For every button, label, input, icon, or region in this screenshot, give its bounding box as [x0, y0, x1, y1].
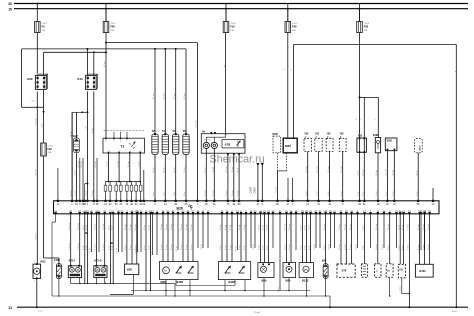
svg-text:0.5 bl: 0.5 bl	[263, 225, 265, 230]
svg-text:0.5 gn: 0.5 gn	[125, 245, 127, 250]
svg-text:0.5 ws: 0.5 ws	[418, 244, 420, 250]
svg-text:0.5 gn: 0.5 gn	[388, 245, 390, 250]
svg-text:0.5 gr: 0.5 gr	[398, 225, 400, 230]
svg-text:B122: B122	[302, 279, 309, 283]
svg-text:M33: M33	[285, 144, 291, 148]
svg-text:B168: B168	[177, 280, 184, 284]
svg-text:b.Pin: b.Pin	[452, 311, 458, 313]
svg-text:0.5 sw: 0.5 sw	[285, 244, 287, 250]
svg-text:0.5 ws: 0.5 ws	[166, 224, 168, 230]
svg-text:0.5 br: 0.5 br	[309, 225, 311, 230]
svg-text:0.5 ws: 0.5 ws	[350, 244, 352, 250]
svg-text:0.5 sw: 0.5 sw	[75, 190, 77, 196]
svg-text:0.5 ws: 0.5 ws	[428, 244, 430, 250]
svg-text:0.5 sw: 0.5 sw	[285, 224, 287, 230]
svg-text:1: 1	[34, 262, 35, 264]
svg-text:0.5 ws: 0.5 ws	[166, 244, 168, 250]
svg-text:0.5 gn: 0.5 gn	[324, 245, 326, 250]
svg-text:0.75 bl: 0.75 bl	[103, 223, 105, 230]
svg-text:0.5 gr: 0.5 gr	[397, 245, 400, 250]
svg-text:0.5 sw: 0.5 sw	[376, 244, 378, 250]
svg-text:15 br: 15 br	[183, 191, 186, 196]
svg-text:12 ab2: 12 ab2	[254, 312, 261, 314]
svg-text:S292: S292	[387, 141, 393, 143]
svg-text:B64: B64	[286, 279, 291, 283]
svg-text:0.5 sw: 0.5 sw	[78, 161, 80, 167]
svg-text:1.5 sw: 1.5 sw	[138, 161, 140, 167]
svg-text:0.5 gn: 0.5 gn	[130, 245, 132, 250]
svg-text:0.5 gn: 0.5 gn	[388, 224, 390, 230]
svg-text:0.5 gr: 0.5 gr	[376, 170, 378, 175]
svg-text:S79: S79	[342, 269, 347, 273]
svg-text:0.5 br: 0.5 br	[305, 225, 307, 230]
svg-text:0.75 br: 0.75 br	[408, 223, 410, 230]
svg-text:0.5 gr: 0.5 gr	[230, 225, 232, 230]
svg-text:0.5 br: 0.5 br	[308, 245, 311, 250]
svg-text:T1: T1	[121, 145, 125, 149]
svg-text:0.5 ws: 0.5 ws	[186, 244, 188, 250]
svg-text:0.5 sw: 0.5 sw	[226, 166, 228, 172]
svg-text:15: 15	[8, 8, 12, 12]
svg-text:K40: K40	[77, 77, 83, 81]
svg-text:0.5 sw: 0.5 sw	[81, 161, 83, 167]
svg-text:0.5 ws: 0.5 ws	[339, 244, 341, 250]
svg-text:0.5 br: 0.5 br	[148, 245, 151, 250]
svg-text:31: 31	[9, 306, 13, 310]
svg-text:0.5 gn: 0.5 gn	[213, 167, 215, 173]
svg-text:0.75 sw: 0.75 sw	[196, 120, 198, 127]
svg-text:0.5 sw: 0.5 sw	[153, 93, 155, 99]
svg-text:0.5 ws: 0.5 ws	[345, 244, 347, 250]
svg-text:15: 15	[120, 140, 122, 142]
svg-text:0.5 sw: 0.5 sw	[174, 93, 176, 99]
svg-text:B36: B36	[322, 259, 327, 262]
svg-text:A7B: A7B	[225, 142, 231, 146]
svg-text:0.5 br: 0.5 br	[108, 245, 111, 250]
svg-text:0.5 gr: 0.5 gr	[244, 225, 246, 230]
svg-text:0.5 ws: 0.5 ws	[191, 244, 193, 250]
svg-text:B161: B161	[420, 269, 427, 273]
svg-text:0.5 ws: 0.5 ws	[161, 224, 163, 230]
svg-text:0.5 gr: 0.5 gr	[385, 191, 388, 196]
svg-text:0.5 ws: 0.5 ws	[171, 224, 173, 230]
svg-text:3: 3	[126, 140, 127, 142]
svg-text:15 br: 15 br	[173, 191, 176, 196]
svg-text:0.5 bl: 0.5 bl	[341, 191, 343, 196]
svg-text:0.5 ws: 0.5 ws	[393, 170, 395, 176]
svg-text:0.5 br: 0.5 br	[304, 245, 307, 250]
svg-text:0.5 gr: 0.5 gr	[357, 191, 360, 196]
svg-text:1 br: 1 br	[86, 126, 88, 130]
svg-text:F164: F164	[54, 259, 60, 262]
svg-text:0.75 bl: 0.75 bl	[95, 244, 97, 250]
svg-text:0.5 gr: 0.5 gr	[362, 191, 365, 196]
svg-text:0.5 sw: 0.5 sw	[289, 244, 291, 250]
svg-text:M25 M26: M25 M26	[204, 140, 211, 142]
svg-text:4.5: 4.5	[32, 101, 35, 103]
svg-text:0.5 ws: 0.5 ws	[191, 224, 193, 230]
svg-text:F10: F10	[230, 24, 235, 28]
svg-text:0.5 ws: 0.5 ws	[232, 167, 234, 173]
svg-text:1: 1	[120, 150, 121, 152]
svg-text:0.5 bl: 0.5 bl	[259, 225, 261, 230]
svg-text:0.5 br: 0.5 br	[301, 225, 303, 230]
svg-text:0.5 br: 0.5 br	[82, 245, 85, 250]
svg-text:1.5 sw: 1.5 sw	[107, 161, 109, 167]
svg-text:0.75 br: 0.75 br	[36, 233, 38, 240]
svg-text:0.5 br: 0.5 br	[329, 244, 331, 249]
svg-text:0.5 br: 0.5 br	[144, 225, 146, 230]
svg-text:0.5 ws: 0.5 ws	[213, 190, 215, 196]
svg-text:0.5 ws: 0.5 ws	[418, 224, 420, 230]
svg-text:4: 4	[105, 140, 106, 142]
svg-text:Y15: Y15	[358, 133, 363, 137]
svg-text:Shemcar.ru: Shemcar.ru	[210, 153, 265, 165]
svg-text:0.5 rt: 0.5 rt	[236, 167, 239, 172]
svg-text:0.5 bl: 0.5 bl	[267, 225, 269, 230]
svg-text:0.5 bl: 0.5 bl	[317, 191, 319, 196]
svg-text:0.5 br: 0.5 br	[358, 170, 360, 175]
svg-text:0.5 gr: 0.5 gr	[401, 245, 404, 250]
svg-text:6 ws: 6 ws	[38, 311, 42, 313]
svg-text:0.5 ws: 0.5 ws	[186, 224, 188, 230]
svg-text:0.5 br: 0.5 br	[174, 167, 176, 172]
svg-text:1: 1	[113, 140, 114, 142]
svg-text:0.5 sw: 0.5 sw	[317, 166, 319, 172]
svg-text:0.5 br: 0.5 br	[85, 245, 88, 250]
svg-text:0.5 sw: 0.5 sw	[184, 93, 186, 99]
svg-text:15 br: 15 br	[163, 191, 166, 196]
svg-text:0.5 br: 0.5 br	[236, 246, 238, 251]
svg-text:1.5 sw: 1.5 sw	[104, 61, 106, 67]
svg-text:0.5 br: 0.5 br	[117, 248, 119, 253]
svg-text:1.5 sw: 1.5 sw	[117, 161, 119, 167]
svg-text:M: M	[165, 269, 167, 272]
svg-text:1: 1	[177, 131, 178, 133]
svg-text:1: 1	[109, 150, 110, 152]
svg-text:0.75 bl: 0.75 bl	[95, 223, 97, 230]
svg-text:1.5 sw: 1.5 sw	[128, 161, 130, 167]
svg-text:0.5 ws: 0.5 ws	[171, 244, 173, 250]
svg-text:0.5 sw: 0.5 sw	[70, 190, 72, 196]
svg-text:15 br: 15 br	[152, 191, 155, 196]
svg-text:0.75 sw: 0.75 sw	[78, 223, 80, 230]
svg-text:0.5 ws: 0.5 ws	[350, 224, 352, 230]
svg-text:0.5 gn: 0.5 gn	[135, 245, 137, 250]
svg-text:0.5 gr: 0.5 gr	[224, 245, 227, 250]
svg-text:0.5 bl: 0.5 bl	[306, 191, 308, 196]
svg-text:1: 1	[141, 150, 142, 152]
svg-text:0.75 sw: 0.75 sw	[36, 118, 38, 125]
svg-text:0.5 sw: 0.5 sw	[86, 190, 88, 196]
svg-text:T1H2: T1H2	[71, 134, 78, 138]
svg-text:0.5 br: 0.5 br	[382, 244, 384, 249]
svg-text:0.5 ws: 0.5 ws	[161, 244, 163, 250]
svg-text:Y62: Y62	[315, 134, 320, 136]
svg-text:B128: B128	[229, 280, 236, 284]
svg-text:0.5 sw: 0.5 sw	[376, 224, 378, 230]
svg-text:0.5 ws: 0.5 ws	[339, 224, 341, 230]
svg-text:b ws: b ws	[399, 287, 401, 291]
svg-text:0.5 sw: 0.5 sw	[289, 224, 291, 230]
svg-text:0.5 br: 0.5 br	[356, 244, 358, 249]
svg-text:0.5 gn: 0.5 gn	[125, 224, 127, 230]
svg-text:0.5 sw: 0.5 sw	[386, 169, 388, 175]
svg-text:0.5 gr: 0.5 gr	[392, 191, 395, 196]
svg-text:Y62: Y62	[326, 134, 331, 136]
svg-text:0.5 sw: 0.5 sw	[341, 166, 343, 172]
svg-text:0.5 br: 0.5 br	[416, 170, 418, 175]
svg-text:0.5 gr: 0.5 gr	[239, 225, 241, 230]
svg-text:0.5 ws: 0.5 ws	[237, 190, 239, 196]
svg-text:0.5 ws: 0.5 ws	[181, 224, 183, 230]
svg-text:0.75 br: 0.75 br	[407, 244, 410, 250]
svg-text:0.5 ws: 0.5 ws	[423, 224, 425, 230]
svg-text:1: 1	[156, 131, 157, 133]
svg-text:0.5 br: 0.5 br	[149, 225, 151, 230]
svg-text:1: 1	[187, 131, 188, 133]
svg-text:B28: B28	[127, 268, 132, 272]
svg-text:0.5 bl: 0.5 bl	[263, 245, 265, 250]
svg-text:Y62: Y62	[340, 134, 345, 136]
svg-text:0.5 gr: 0.5 gr	[415, 191, 418, 196]
svg-text:0.5 ws: 0.5 ws	[205, 190, 207, 196]
svg-text:0.5 gr: 0.5 gr	[229, 245, 232, 250]
svg-text:1: 1	[167, 131, 168, 133]
svg-text:0.5 gr: 0.5 gr	[238, 245, 241, 250]
svg-text:0.5 br: 0.5 br	[143, 245, 146, 250]
svg-text:0.5 gr: 0.5 gr	[220, 225, 222, 230]
svg-text:0.5 gr: 0.5 gr	[225, 225, 227, 230]
svg-text:Y62: Y62	[304, 134, 309, 136]
svg-text:KT2-D: KT2-D	[94, 259, 102, 262]
svg-text:A112: A112	[419, 145, 422, 151]
svg-text:F30: F30	[364, 24, 369, 28]
svg-text:0.5 br: 0.5 br	[75, 170, 77, 175]
svg-text:0.5 br: 0.5 br	[164, 167, 166, 172]
svg-text:0.75 sw: 0.75 sw	[69, 223, 71, 230]
svg-text:0.5 br: 0.5 br	[83, 225, 85, 230]
svg-text:0.5 br: 0.5 br	[110, 245, 113, 250]
svg-text:0.75 sw: 0.75 sw	[78, 243, 80, 250]
svg-text:0.5 sw: 0.5 sw	[36, 169, 38, 175]
svg-text:CAN8: CAN8	[254, 187, 257, 194]
svg-text:0.5 ws: 0.5 ws	[226, 190, 228, 196]
svg-text:0.5 ws: 0.5 ws	[232, 190, 234, 196]
svg-text:0.5 ws: 0.5 ws	[345, 224, 347, 230]
svg-text:30: 30	[8, 2, 12, 6]
svg-text:0.5 gr: 0.5 gr	[243, 245, 246, 250]
svg-text:0.5 br: 0.5 br	[176, 246, 178, 251]
svg-text:0.75 bl: 0.75 bl	[103, 244, 105, 250]
svg-text:KT2-I: KT2-I	[69, 259, 76, 262]
svg-text:0.5 gr: 0.5 gr	[402, 225, 404, 230]
svg-text:0.5 br: 0.5 br	[300, 245, 303, 250]
svg-text:0.5 sw: 0.5 sw	[92, 190, 94, 196]
svg-text:F46: F46	[110, 24, 115, 28]
svg-text:CAN4: CAN4	[249, 187, 252, 194]
svg-text:2: 2	[34, 280, 35, 282]
svg-text:0.5 bl: 0.5 bl	[267, 245, 269, 250]
svg-text:0.5 br: 0.5 br	[184, 167, 186, 172]
svg-text:0.5 sw: 0.5 sw	[164, 93, 166, 99]
svg-text:0.5 sw: 0.5 sw	[363, 169, 365, 175]
svg-text:0.5 gn: 0.5 gn	[130, 224, 132, 230]
svg-text:0.5 gn: 0.5 gn	[324, 224, 326, 230]
svg-text:0.5 br: 0.5 br	[111, 225, 113, 230]
svg-text:0.5 gr: 0.5 gr	[219, 245, 222, 250]
svg-text:0.5 bl: 0.5 bl	[259, 245, 261, 250]
svg-text:0.5 br: 0.5 br	[363, 225, 365, 230]
svg-text:0.5 br: 0.5 br	[278, 287, 280, 292]
svg-text:0.5 br: 0.5 br	[109, 225, 111, 230]
svg-text:K29: K29	[27, 77, 33, 81]
svg-text:0.5 ws: 0.5 ws	[181, 244, 183, 250]
svg-text:0.5 br: 0.5 br	[253, 244, 255, 249]
svg-text:0.5 ws: 0.5 ws	[423, 244, 425, 250]
svg-text:0.5 gr: 0.5 gr	[375, 191, 378, 196]
svg-text:0.5 br: 0.5 br	[205, 167, 207, 172]
svg-text:0.5 sw: 0.5 sw	[328, 166, 330, 172]
svg-text:0.5 sw: 0.5 sw	[95, 161, 97, 167]
svg-text:0.5 br: 0.5 br	[86, 225, 88, 230]
svg-text:0.5 ws: 0.5 ws	[428, 224, 430, 230]
svg-text:0.5 br: 0.5 br	[153, 167, 155, 172]
svg-text:0.5 br: 0.5 br	[151, 251, 153, 256]
svg-text:W12: W12	[40, 261, 46, 264]
svg-text:M1B: M1B	[273, 133, 278, 136]
svg-text:0.5 gn: 0.5 gn	[135, 224, 137, 230]
svg-text:0.5 br: 0.5 br	[276, 187, 278, 192]
svg-text:0.5 br: 0.5 br	[201, 244, 203, 249]
svg-text:0.5 gr: 0.5 gr	[92, 128, 94, 133]
svg-text:0.75 sw: 0.75 sw	[69, 243, 71, 250]
svg-text:F29: F29	[292, 24, 297, 28]
svg-text:1: 1	[130, 150, 131, 152]
svg-text:0.5 sw: 0.5 sw	[306, 166, 308, 172]
svg-text:0.5 br: 0.5 br	[362, 245, 365, 250]
svg-text:0.5 bl: 0.5 bl	[328, 191, 330, 196]
svg-text:0.5 br: 0.5 br	[90, 248, 92, 253]
svg-text:0.5 br: 0.5 br	[314, 244, 316, 249]
svg-text:F62: F62	[48, 148, 53, 151]
